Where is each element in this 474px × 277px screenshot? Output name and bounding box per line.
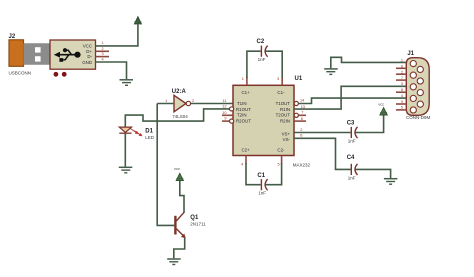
wire LED to R1OUT	[125, 109, 229, 127]
wire inverter output to U1 T1IN	[191, 102, 233, 104]
svg-text:U1: U1	[295, 76, 303, 82]
svg-text:C3: C3	[347, 120, 355, 126]
wire GND pin4 to ground	[96, 62, 127, 79]
ground (LED)	[119, 167, 133, 173]
svg-text:7: 7	[301, 111, 303, 115]
pin 9 R2OUT stub + bubble	[222, 120, 230, 122]
wire R1IN to J1	[294, 86, 406, 109]
svg-text:11: 11	[223, 99, 227, 103]
svg-text:C4: C4	[347, 155, 355, 161]
wire C1 right	[265, 163, 281, 185]
svg-text:1nF: 1nF	[258, 57, 266, 62]
svg-text:T1OUT: T1OUT	[276, 101, 291, 106]
J1 pin numbers	[401, 59, 403, 110]
svg-text:J2: J2	[9, 34, 16, 40]
svg-text:8: 8	[301, 117, 303, 121]
ground (C4)	[384, 179, 398, 185]
wire C3 to power	[355, 116, 383, 133]
pin 8 R2IN stub	[294, 120, 306, 122]
J2 pin numbers	[102, 41, 104, 61]
connector J1 CONN-D9M body	[406, 58, 429, 116]
pin 14 T1OUT bubble	[294, 101, 298, 105]
ground (USB)	[120, 80, 134, 86]
capacitor C1	[261, 179, 267, 190]
wire C2 right	[265, 51, 282, 78]
pin 10 T2IN stub	[222, 114, 233, 116]
pin 7 T2OUT bubble + stub	[294, 113, 298, 117]
svg-text:U2:A: U2:A	[172, 89, 187, 95]
pin 3 D- stub	[96, 56, 110, 58]
svg-text:D1: D1	[145, 129, 153, 135]
svg-text:C1: C1	[257, 173, 265, 179]
svg-text:1nF: 1nF	[348, 138, 356, 143]
svg-text:CONN-D9M: CONN-D9M	[406, 115, 431, 120]
svg-text:1: 1	[401, 59, 403, 63]
wire vcc to Q1 collector	[180, 181, 184, 213]
svg-text:J1: J1	[407, 51, 414, 57]
U1 left pin numbers	[222, 99, 226, 121]
svg-text:vcc: vcc	[378, 102, 384, 107]
svg-text:R1OUT: R1OUT	[236, 107, 251, 112]
pin 1 C1+ stub	[246, 77, 248, 85]
svg-text:R2OUT: R2OUT	[236, 118, 251, 123]
wire C1 left	[246, 163, 261, 185]
J1 pin stubs	[396, 68, 406, 110]
pin 2 D+ stub	[96, 50, 110, 52]
svg-text:1nF: 1nF	[348, 175, 356, 180]
capacitor C3	[351, 127, 357, 138]
svg-text:R1IN: R1IN	[280, 107, 290, 112]
svg-text:1: 1	[165, 99, 167, 103]
svg-text:9: 9	[224, 117, 226, 121]
wire C2 left	[247, 51, 261, 78]
IC U1 MAX232 body	[233, 85, 294, 155]
svg-text:LED: LED	[145, 135, 155, 140]
svg-text:C1-: C1-	[277, 90, 285, 95]
wire LED to ground	[124, 134, 126, 167]
capacitor C2	[261, 46, 267, 57]
svg-text:1nF: 1nF	[258, 190, 266, 195]
op-amp U2:A inverter 74LS04	[174, 95, 191, 112]
svg-text:T2OUT: T2OUT	[276, 113, 291, 118]
wire node to Q1 base	[157, 103, 174, 225]
power vcc (J1 side)	[380, 108, 387, 115]
svg-text:5: 5	[277, 162, 279, 166]
svg-text:D-: D-	[87, 54, 92, 59]
svg-text:5: 5	[401, 106, 403, 110]
LED D1	[119, 127, 142, 136]
wire VCC pin1 to power	[96, 24, 138, 45]
power VCC top-left	[134, 17, 141, 24]
svg-text:USBCONN: USBCONN	[9, 71, 32, 76]
svg-text:3: 3	[102, 52, 104, 56]
svg-text:2: 2	[401, 70, 403, 74]
svg-text:6: 6	[300, 134, 302, 138]
pin 4 C2+ stub	[245, 156, 247, 165]
pin 5 C2- stub	[281, 156, 283, 165]
svg-text:2: 2	[300, 128, 302, 132]
J2 pin names	[82, 43, 92, 64]
junction node	[156, 120, 158, 122]
svg-text:T2IN: T2IN	[237, 113, 247, 118]
capacitor C4	[351, 164, 357, 175]
svg-text:C2: C2	[257, 39, 265, 45]
svg-text:74LS04: 74LS04	[172, 114, 188, 119]
svg-text:T1IN: T1IN	[237, 101, 247, 106]
svg-text:10: 10	[222, 111, 226, 115]
U1 pin names left	[236, 90, 251, 153]
pin 12 R1OUT bubble	[230, 107, 234, 111]
svg-text:1: 1	[242, 77, 244, 81]
svg-text:MAX232: MAX232	[293, 162, 311, 167]
svg-text:VCC: VCC	[83, 43, 92, 48]
U1 pin names right	[276, 90, 291, 153]
svg-text:4: 4	[102, 58, 104, 62]
svg-text:C2-: C2-	[277, 148, 285, 153]
svg-text:vcc: vcc	[174, 166, 180, 171]
svg-text:C1+: C1+	[242, 90, 251, 95]
svg-text:2: 2	[102, 47, 104, 51]
connector J2 USBCONN	[9, 40, 96, 69]
svg-text:4: 4	[401, 94, 403, 98]
wire T1OUT to J1	[298, 98, 406, 103]
power vcc (Q1)	[176, 173, 183, 180]
pin 3 C1- stub	[281, 77, 283, 85]
svg-text:Q1: Q1	[190, 215, 199, 221]
wire ground jog to J1 pin1	[331, 57, 407, 68]
svg-text:R2IN: R2IN	[280, 118, 290, 123]
svg-text:9: 9	[401, 100, 403, 104]
svg-text:2N1711: 2N1711	[190, 221, 206, 226]
svg-text:GND: GND	[82, 60, 92, 65]
svg-text:3: 3	[401, 82, 403, 86]
svg-text:14: 14	[300, 99, 304, 103]
svg-text:7: 7	[401, 76, 403, 80]
svg-text:12: 12	[222, 104, 226, 108]
J1 holes	[410, 61, 423, 114]
origin dots	[54, 72, 59, 77]
svg-text:2: 2	[192, 99, 194, 103]
svg-text:3: 3	[277, 77, 279, 81]
transistor Q1 2N1711	[175, 212, 185, 238]
wire C4 to ground	[355, 169, 390, 178]
wire VS+ to C3	[294, 132, 351, 134]
wire inverter input from node	[157, 102, 173, 104]
svg-text:VS-: VS-	[283, 137, 291, 142]
wire VS- to C4	[294, 138, 351, 169]
svg-text:D+: D+	[86, 49, 92, 54]
svg-text:8: 8	[401, 88, 403, 92]
svg-text:1: 1	[102, 41, 104, 45]
ground (J1)	[324, 69, 338, 75]
U1 right pin numbers	[300, 99, 305, 138]
svg-text:VS+: VS+	[282, 131, 291, 136]
USB trident icon	[54, 48, 81, 62]
ground (Q1)	[167, 259, 181, 265]
wire Q1 emitter to ground	[174, 238, 185, 258]
svg-text:4: 4	[241, 162, 243, 166]
svg-text:C2+: C2+	[241, 148, 250, 153]
svg-text:6: 6	[401, 64, 403, 68]
